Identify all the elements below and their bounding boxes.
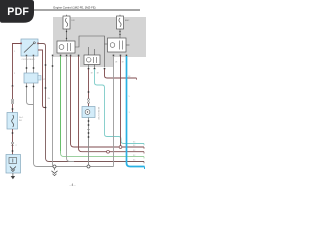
wire gray W-B to ground splice (53, 56, 55, 167)
junction node on W-B wire (52, 65, 54, 67)
fuse EFI (left) (63, 15, 75, 29)
R1 pin marks (52, 55, 54, 57)
wire cyan thick from R2 (127, 56, 145, 167)
relay R3 (circuit opening relay feed, in extension) (84, 55, 100, 65)
page background (0, 0, 149, 198)
junction pins under junction block extension (88, 68, 90, 70)
wire maroon from R3 right pin to page link 1K (105, 69, 137, 78)
wire dark below noise filter to ground splice (88, 118, 90, 167)
wire fuse AM2 to relay R2 (119, 29, 121, 38)
junction nodes on maroon bus wire (45, 64, 47, 66)
wire gray from R1 joining maroon bus (67, 56, 75, 162)
wire gray to ground bus (34, 83, 38, 167)
wire maroon from relay lower pin merging (38, 50, 46, 108)
wire maroon outer to connector B (79, 56, 145, 152)
svg-text:PDF: PDF (7, 6, 29, 18)
junction node below injector (12, 132, 14, 134)
ground bus (37, 166, 114, 168)
injector (blue box) (7, 113, 18, 130)
wire green from R1 (60, 56, 62, 153)
fuse AM2 (right) (117, 15, 131, 29)
wire gray under C/OPN relay pin 1 (26, 56, 28, 73)
wire maroon left feed to injector chain (13, 44, 22, 87)
junction nodes below noise filter (88, 120, 90, 122)
junction node above injector (12, 108, 14, 110)
wire gray below pump merging (27, 83, 34, 105)
junction block shaded area (Engine Room R/B) (53, 17, 146, 57)
wire (12, 104, 14, 113)
wire to connector (12, 86, 14, 99)
header rule (34, 9, 140, 11)
wire maroon from R2 to splice (120, 56, 122, 146)
EFI relay R1 (57, 41, 75, 53)
junction node above ECM (12, 150, 14, 152)
svg-text:- 4 -: - 4 - (69, 183, 75, 187)
svg-text:NOISE FILTER: NOISE FILTER (97, 107, 99, 120)
junction node above noise filter (88, 91, 90, 93)
R3 pin nodes (89, 65, 95, 70)
splice on maroon B (107, 150, 110, 153)
ground arrow (11, 176, 15, 179)
ground splice EA (53, 165, 56, 168)
ECM (blue box, bottom left) (6, 155, 21, 174)
fuel pump connector (blue box) (24, 73, 41, 83)
PDF badge (0, 0, 34, 23)
wire gray from R2 to ground bus (113, 56, 115, 167)
junction block shaded extension (Engine Room J/B) (80, 45, 113, 67)
wire bus inside junction block to R2 (75, 36, 105, 67)
svg-text:Engine Control (1MZ-FE, 3MZ-FE: Engine Control (1MZ-FE, 3MZ-FE) (53, 5, 95, 9)
R2 pin marks (113, 55, 115, 57)
wire below injector (12, 129, 14, 155)
splice on maroon A (119, 146, 122, 149)
ground splice EB (87, 165, 90, 168)
wire below ECM (12, 173, 14, 176)
svg-text:EFI: EFI (72, 20, 76, 22)
wire maroon from relay right side down to bus (38, 44, 144, 162)
ground symbol (54, 168, 56, 170)
page-link end ticks (143, 144, 145, 146)
inline connector pair (12, 99, 14, 101)
junction node on injector feed (12, 85, 14, 87)
wire maroon from R1 to connector A (71, 56, 145, 147)
junction pins below fuel pump connector (26, 86, 28, 88)
circuit opening relay (blue box) (20, 39, 39, 56)
noise filter (blue box) (82, 107, 95, 118)
main relay R2 (108, 38, 130, 52)
wire fuse EFI to relay R1 (66, 29, 68, 41)
wire gray under C/OPN relay pin 2 (33, 56, 35, 73)
connector pair above noise filter (88, 99, 90, 101)
svg-text:INJ: INJ (19, 120, 22, 122)
R3 feed stubs (89, 47, 95, 55)
wire maroon R3 pin to noise filter (88, 69, 90, 99)
inline connector (12, 142, 14, 144)
junction pins above fuel pump connector (26, 67, 28, 69)
wire teal from R3 to connector (95, 69, 145, 144)
